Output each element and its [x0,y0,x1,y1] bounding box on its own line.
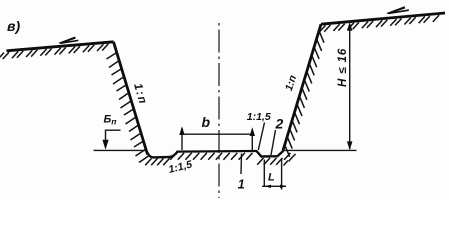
svg-text:Н ≤ 16: Н ≤ 16 [337,48,349,87]
right direction half-arrow [387,6,410,14]
b dimension right extension with arrow [251,129,253,151]
right ground hatching [319,15,439,32]
left bottom ditch 1:1.5 [147,152,178,158]
svg-text:в): в) [7,18,20,34]
svg-text:b: b [202,114,211,130]
right ground surface line [321,13,445,24]
left berm line [94,149,146,151]
svg-text:1:1,5: 1:1,5 [247,111,271,123]
right bottom ditch 1:1.5 [257,151,284,157]
svg-text:2: 2 [275,115,284,131]
left ground surface line [7,42,114,51]
centerline [218,23,220,198]
H dimension line [349,24,351,150]
bottom reference line right [284,149,357,151]
bottom hatching [145,153,295,166]
label 1 leader [240,154,243,175]
H dimension bottom arrow [347,141,352,150]
trench bottom line [177,150,258,153]
b dimension line [182,133,252,135]
b dimension left extension with arrow [181,128,183,150]
label 2 leader [271,130,276,155]
right slope hatching [285,31,324,157]
right slope line 1:n [283,24,321,150]
right ditch leader [258,123,264,151]
svg-text:1: 1 [238,177,245,191]
left slope line 1:n [114,42,148,155]
L dimension arrows [264,185,271,188]
L dimension line [262,185,286,187]
left direction half-arrow [59,37,79,45]
L dimension extension lines [264,159,281,190]
left ground hatching [0,44,108,60]
Бп leader arrow [106,130,121,147]
H dimension top arrow [347,22,352,31]
left slope hatching [107,53,149,163]
svg-text:L: L [268,172,275,184]
